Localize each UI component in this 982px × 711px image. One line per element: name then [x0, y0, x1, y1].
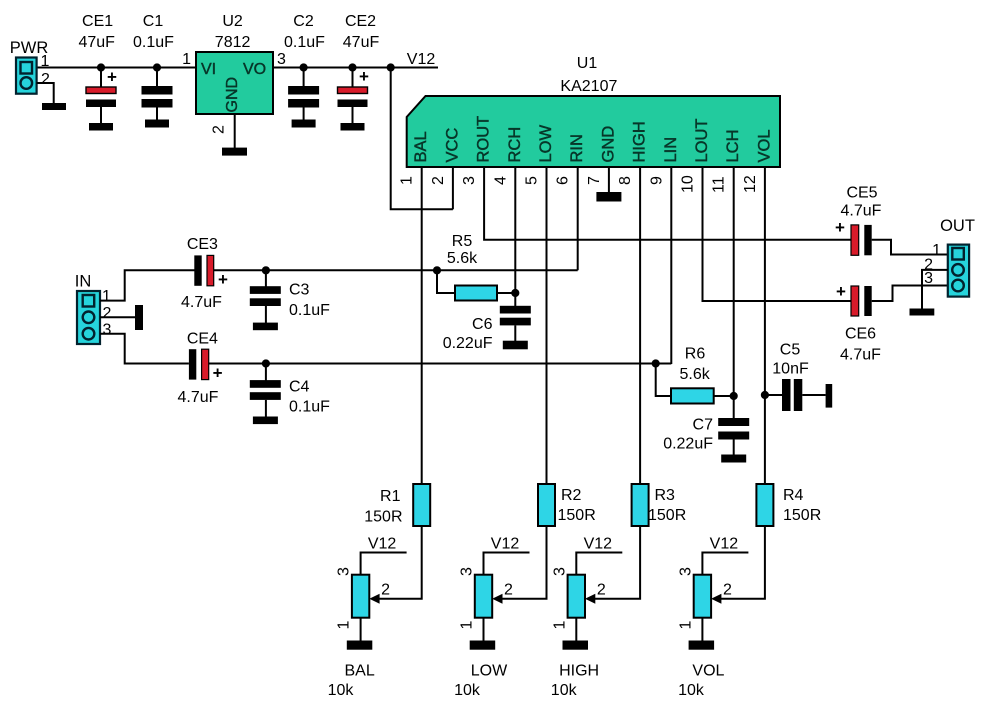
wire pin6 RIN — [577, 167, 579, 270]
wire pin9 LIN — [670, 167, 672, 364]
node C5 tap — [761, 391, 769, 399]
svg-text:0.1uF: 0.1uF — [289, 399, 330, 416]
svg-text:V12: V12 — [407, 51, 436, 68]
capacitor C2 0.1uF — [284, 13, 325, 120]
svg-text:47uF: 47uF — [343, 34, 380, 51]
svg-text:CE3: CE3 — [187, 236, 218, 253]
ground IN pin2 — [135, 305, 143, 330]
svg-text:+: + — [835, 218, 845, 237]
capacitor C3 0.1uF — [250, 270, 330, 323]
svg-text:C3: C3 — [289, 282, 310, 299]
wire LOW pin3 to V12 — [484, 553, 530, 575]
wire R6 tap — [656, 364, 671, 397]
svg-text:HIGH: HIGH — [559, 663, 599, 680]
node C6 junction — [511, 289, 519, 297]
wire LOW pin1 — [483, 618, 485, 641]
svg-text:LOW: LOW — [537, 124, 555, 162]
ground C2 — [292, 120, 316, 128]
wire pin1 BAL to R1 — [421, 167, 423, 484]
svg-text:R6: R6 — [685, 345, 706, 362]
svg-text:KA2107: KA2107 — [560, 78, 617, 95]
svg-text:3: 3 — [677, 567, 694, 576]
svg-text:LCH: LCH — [724, 129, 742, 162]
wire VOL pin3 to V12 — [702, 553, 748, 575]
ground C7 — [721, 455, 746, 463]
wire pin4 RCH — [514, 167, 516, 293]
svg-text:1: 1 — [182, 51, 191, 68]
svg-text:150R: 150R — [558, 507, 596, 524]
wire IN pin1 to CE3 — [100, 270, 195, 300]
resistor R1 150R — [364, 484, 430, 526]
svg-text:RCH: RCH — [506, 127, 524, 163]
wire pin11 LCH — [733, 167, 735, 396]
svg-text:GND: GND — [599, 126, 617, 163]
svg-text:5.6k: 5.6k — [679, 366, 710, 383]
ground C4 — [253, 417, 278, 425]
IC U1 KA2107 — [407, 55, 780, 167]
svg-text:4.7uF: 4.7uF — [181, 294, 222, 311]
wire R6 to pin11 — [714, 395, 734, 397]
ground VOL — [689, 641, 715, 650]
wire V12 rail right of U2 — [273, 67, 438, 69]
potentiometer HIGH 10k — [568, 575, 596, 618]
svg-text:10: 10 — [680, 175, 697, 193]
resistor R5 5.6k — [447, 233, 497, 301]
svg-text:C4: C4 — [289, 378, 310, 395]
svg-text:2: 2 — [103, 305, 112, 322]
wire CE5 to OUT pin1 — [872, 240, 948, 255]
wire R5 tap — [437, 270, 455, 293]
svg-text:1: 1 — [459, 621, 476, 630]
ground OUT — [910, 309, 935, 316]
connector IN — [75, 273, 100, 345]
wire pin12 VOL to R4 — [764, 167, 766, 484]
svg-text:10k: 10k — [678, 682, 705, 699]
svg-text:HIGH: HIGH — [631, 121, 649, 162]
svg-text:1: 1 — [41, 53, 50, 70]
svg-text:2: 2 — [430, 176, 447, 185]
svg-text:4.7uF: 4.7uF — [178, 389, 219, 406]
svg-text:6: 6 — [555, 176, 572, 185]
svg-text:3: 3 — [277, 51, 286, 68]
svg-text:BAL: BAL — [412, 131, 430, 162]
wire HIGH pin1 — [575, 618, 577, 641]
svg-text:V12: V12 — [584, 536, 613, 553]
wire HIGH pin3 to V12 — [576, 553, 622, 575]
ground C1 — [145, 120, 169, 128]
svg-text:7812: 7812 — [215, 34, 251, 51]
ground HIGH — [563, 641, 589, 650]
svg-text:LOW: LOW — [471, 663, 508, 680]
svg-text:LIN: LIN — [662, 137, 680, 163]
resistor R6 5.6k — [671, 345, 714, 403]
svg-text:3: 3 — [461, 176, 478, 185]
svg-text:+: + — [213, 364, 223, 383]
svg-text:V12: V12 — [491, 536, 520, 553]
wire C5 left — [765, 394, 782, 396]
svg-text:10k: 10k — [328, 682, 355, 699]
svg-text:CE4: CE4 — [187, 331, 218, 348]
svg-text:V12: V12 — [368, 536, 397, 553]
svg-text:3: 3 — [551, 567, 568, 576]
svg-text:R3: R3 — [655, 487, 676, 504]
ground BAL — [347, 641, 373, 650]
svg-text:CE1: CE1 — [82, 13, 113, 30]
wire pin3 ROUT to CE5 — [484, 167, 851, 240]
capacitor C6 0.22uF — [443, 293, 531, 352]
wire LIN line — [209, 363, 672, 365]
ground U2 — [222, 148, 247, 156]
svg-text:VCC: VCC — [443, 128, 461, 163]
svg-text:R4: R4 — [783, 487, 804, 504]
wire RIN line — [214, 269, 578, 271]
node C4 junction — [262, 359, 270, 367]
ground C5 — [826, 384, 833, 408]
ground CE1 — [89, 123, 113, 131]
svg-text:47uF: 47uF — [78, 34, 115, 51]
svg-text:8: 8 — [617, 176, 634, 185]
svg-text:4.7uF: 4.7uF — [840, 347, 881, 364]
svg-text:R1: R1 — [380, 488, 401, 505]
ground U1 pin7 — [596, 192, 621, 202]
wire V12 to pin2 — [391, 68, 453, 210]
potentiometer LOW 10k — [475, 575, 503, 618]
wire pin7 GND stub — [608, 167, 610, 192]
svg-text:+: + — [836, 282, 846, 301]
wire IN pin2 — [100, 316, 135, 318]
wire BAL pin3 to V12 — [361, 553, 407, 575]
svg-text:ROUT: ROUT — [475, 116, 493, 163]
ground C3 — [253, 323, 278, 331]
capacitor C4 0.1uF — [250, 364, 330, 418]
ground C6 — [503, 341, 528, 350]
potentiometer VOL 10k — [694, 575, 722, 618]
svg-text:U1: U1 — [577, 55, 598, 72]
node C2 junction — [300, 63, 308, 71]
svg-text:3: 3 — [103, 322, 112, 339]
svg-text:VOL: VOL — [755, 129, 773, 162]
wire pin10 LOUT to CE6 — [703, 167, 852, 301]
svg-text:VOL: VOL — [692, 663, 724, 680]
svg-text:VI: VI — [201, 61, 216, 78]
wire OUT pin2 ground — [922, 270, 948, 309]
svg-text:150R: 150R — [648, 507, 686, 524]
svg-text:150R: 150R — [364, 508, 402, 525]
wire pin5 LOW to R2 — [546, 167, 548, 484]
node C7 junction — [730, 392, 738, 400]
svg-text:2: 2 — [504, 582, 513, 599]
svg-text:11: 11 — [711, 176, 728, 193]
node CE2 junction — [348, 63, 356, 71]
svg-text:GND: GND — [224, 77, 241, 113]
svg-text:5: 5 — [524, 176, 541, 185]
capacitor CE3 4.7uF — [181, 236, 228, 311]
svg-text:BAL: BAL — [344, 663, 374, 680]
svg-text:C5: C5 — [780, 342, 801, 359]
svg-text:1: 1 — [677, 621, 694, 630]
capacitor CE2 47uF — [338, 13, 380, 123]
svg-text:RIN: RIN — [568, 134, 586, 162]
svg-text:2: 2 — [597, 582, 606, 599]
svg-text:4.7uF: 4.7uF — [841, 203, 882, 220]
svg-text:1: 1 — [932, 242, 941, 259]
svg-text:10k: 10k — [551, 682, 578, 699]
svg-text:2: 2 — [41, 71, 50, 88]
resistor R4 150R — [756, 484, 821, 526]
svg-text:9: 9 — [648, 176, 665, 185]
ground LOW — [470, 641, 496, 650]
svg-text:+: + — [107, 68, 117, 87]
wire U2 pin2 — [234, 114, 236, 148]
svg-text:+: + — [218, 270, 228, 289]
svg-text:2: 2 — [211, 125, 228, 134]
wire pin2 VCC — [452, 167, 454, 209]
svg-text:OUT: OUT — [940, 217, 975, 235]
svg-text:5.6k: 5.6k — [447, 250, 478, 267]
svg-text:CE5: CE5 — [846, 185, 877, 202]
capacitor C1 0.1uF — [133, 13, 174, 120]
svg-text:0.22uF: 0.22uF — [443, 335, 493, 352]
svg-text:150R: 150R — [783, 507, 821, 524]
capacitor CE6 4.7uF — [836, 282, 881, 364]
node C3 junction — [262, 266, 270, 274]
svg-text:12: 12 — [742, 175, 759, 193]
wire IN pin3 to CE4 — [100, 334, 189, 364]
capacitor C5 10nF — [772, 342, 825, 412]
svg-text:2: 2 — [723, 582, 732, 599]
svg-text:U2: U2 — [222, 13, 243, 30]
wire R3 to HIGH wiper — [593, 526, 640, 599]
svg-text:1: 1 — [551, 621, 568, 630]
svg-text:V12: V12 — [710, 536, 739, 553]
wire BAL pin1 — [360, 618, 362, 641]
svg-text:R5: R5 — [452, 233, 473, 250]
svg-text:3: 3 — [336, 567, 353, 576]
svg-text:3: 3 — [924, 270, 933, 287]
wire R5 to pin4 — [497, 292, 515, 294]
svg-text:CE2: CE2 — [345, 13, 376, 30]
svg-text:10k: 10k — [454, 682, 481, 699]
svg-text:C6: C6 — [472, 316, 493, 333]
ground PWR — [42, 103, 66, 110]
svg-text:R2: R2 — [561, 487, 582, 504]
node V12 — [387, 63, 395, 71]
wire R4 to VOL wiper — [719, 526, 765, 599]
resistor R2 150R — [538, 484, 596, 526]
node R6 tap — [652, 359, 660, 367]
svg-text:1: 1 — [399, 176, 416, 185]
capacitor CE4 4.7uF — [178, 331, 223, 406]
wire VOL pin1 — [701, 618, 703, 641]
svg-text:C1: C1 — [143, 13, 164, 30]
svg-text:CE6: CE6 — [845, 326, 876, 343]
svg-text:C7: C7 — [693, 417, 714, 434]
connector OUT — [940, 217, 975, 297]
node R5 tap — [433, 266, 441, 274]
capacitor C7 0.22uF — [663, 396, 749, 455]
node C1 junction — [153, 63, 161, 71]
svg-text:4: 4 — [492, 176, 509, 185]
node CE1 junction — [97, 63, 105, 71]
ground CE2 — [341, 123, 365, 131]
wire CE6 to OUT pin3 — [872, 286, 948, 302]
svg-text:1: 1 — [336, 621, 353, 630]
svg-text:0.1uF: 0.1uF — [289, 302, 330, 319]
svg-text:10nF: 10nF — [772, 361, 809, 378]
capacitor CE1 47uF — [78, 13, 117, 123]
wire R1 to BAL wiper — [378, 526, 422, 599]
svg-text:0.22uF: 0.22uF — [663, 436, 713, 453]
wire R2 to LOW wiper — [501, 526, 547, 599]
svg-text:2: 2 — [381, 582, 390, 599]
resistor R3 150R — [632, 484, 687, 526]
svg-text:0.1uF: 0.1uF — [133, 34, 174, 51]
capacitor CE5 4.7uF — [835, 185, 882, 256]
wire PWR pin2 — [37, 83, 54, 103]
svg-text:LOUT: LOUT — [693, 118, 711, 162]
svg-text:3: 3 — [459, 567, 476, 576]
connector PWR — [10, 39, 49, 94]
svg-text:C2: C2 — [293, 13, 314, 30]
svg-text:1: 1 — [102, 288, 111, 305]
potentiometer BAL 10k — [352, 575, 380, 618]
wire V12 rail — [37, 67, 196, 69]
svg-text:+: + — [359, 67, 369, 86]
svg-text:7: 7 — [586, 176, 603, 185]
svg-text:VO: VO — [243, 61, 266, 78]
svg-text:IN: IN — [75, 273, 92, 291]
wire pin8 HIGH to R3 — [639, 167, 641, 484]
svg-text:0.1uF: 0.1uF — [284, 34, 325, 51]
regulator U2 7812 — [196, 13, 273, 114]
